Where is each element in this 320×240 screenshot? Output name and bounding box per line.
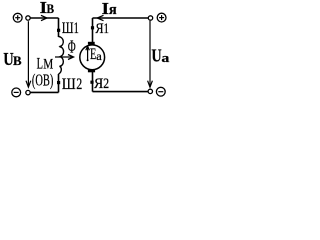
wire Ш2 lead xyxy=(58,74,60,92)
voltage arrow Uа xyxy=(148,21,153,88)
emf arrow Ea xyxy=(86,46,90,61)
node Я2 xyxy=(90,81,93,84)
svg-text:(ОВ): (ОВ) xyxy=(32,70,54,89)
svg-text:Ш: Ш xyxy=(62,76,76,93)
terminal + (left source positive) xyxy=(13,13,22,22)
svg-text:Я: Я xyxy=(94,76,103,92)
node Ш1 xyxy=(57,29,60,32)
wire Я1 lead xyxy=(92,18,94,42)
label Uа xyxy=(151,45,170,65)
wire Ш1 lead xyxy=(58,18,60,37)
svg-text:я: я xyxy=(109,2,117,18)
svg-text:а: а xyxy=(96,51,102,63)
svg-text:1: 1 xyxy=(74,20,79,37)
label Ш2 xyxy=(62,76,82,93)
node Я1 xyxy=(91,26,94,29)
wire top-right xyxy=(93,17,149,19)
svg-text:В: В xyxy=(13,54,22,68)
svg-text:а: а xyxy=(161,50,170,65)
svg-text:Ш: Ш xyxy=(62,20,74,37)
svg-text:Я: Я xyxy=(95,21,103,37)
terminal + (right source positive) xyxy=(157,13,166,22)
label Uв xyxy=(3,49,21,69)
terminal circle top-left xyxy=(26,16,30,20)
current arrow Iв xyxy=(41,15,47,20)
label Я1 xyxy=(95,21,109,37)
voltage arrow Uв xyxy=(26,21,31,87)
flux arrow Ф xyxy=(55,55,74,60)
terminal circle top-right xyxy=(148,16,152,20)
node Ш2 xyxy=(57,81,60,84)
svg-text:U: U xyxy=(151,45,161,65)
wire top-left xyxy=(30,17,58,19)
terminal − (right source negative) xyxy=(156,87,165,96)
inductor Lм (ОВ) field winding xyxy=(59,37,64,75)
wire Я2 lead xyxy=(92,72,94,92)
label Lм xyxy=(37,55,54,72)
wire bottom-right xyxy=(93,91,149,93)
label Iя xyxy=(102,0,117,18)
terminal circle bottom-right xyxy=(148,89,152,93)
label Я2 xyxy=(94,76,109,92)
terminal circle bottom-left xyxy=(26,90,30,94)
armature machine (circle with brushes) xyxy=(80,42,105,73)
terminal − (left source negative) xyxy=(12,88,21,97)
svg-text:В: В xyxy=(47,2,55,16)
svg-text:2: 2 xyxy=(76,76,82,93)
current arrow Iя xyxy=(97,15,103,20)
label Ш1 xyxy=(62,20,79,37)
svg-text:Ф: Ф xyxy=(68,36,76,56)
label Iв xyxy=(40,0,55,17)
label Ea xyxy=(90,46,102,63)
svg-text:2: 2 xyxy=(103,76,109,92)
svg-text:1: 1 xyxy=(104,21,109,37)
wire bottom-left xyxy=(30,91,58,93)
